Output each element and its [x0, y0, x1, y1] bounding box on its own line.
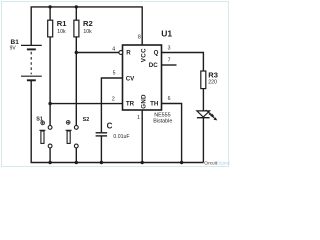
node junction C ground — [100, 161, 103, 164]
svg-text:R2: R2 — [83, 19, 93, 28]
node junction R1 top rail — [48, 5, 51, 8]
LED D1 — [197, 110, 217, 163]
switch S2 — [66, 117, 90, 162]
svg-text:5: 5 — [113, 71, 116, 77]
wire battery+ to top rail and VCC drop — [31, 7, 142, 45]
svg-text:R3: R3 — [208, 70, 218, 79]
svg-text:9V: 9V — [10, 45, 17, 51]
svg-text:3: 3 — [168, 45, 171, 51]
wire TH to ground rail — [162, 104, 182, 163]
svg-text:10k: 10k — [83, 29, 92, 35]
svg-text:Bistable: Bistable — [153, 118, 172, 124]
svg-text:VCC: VCC — [140, 48, 147, 62]
resistor R3 220 — [201, 70, 218, 88]
wire CV pin to capacitor — [101, 78, 122, 132]
node junction S2 ground — [75, 161, 78, 164]
op-amp U1 NE555 body — [119, 28, 173, 124]
svg-text:220: 220 — [208, 80, 217, 86]
svg-text:R: R — [126, 50, 131, 57]
svg-text:GND: GND — [140, 94, 147, 109]
node junction GND pin ground — [141, 161, 144, 164]
wire Q output to R3 — [162, 53, 204, 72]
svg-text:6: 6 — [168, 96, 171, 102]
wire R2 to R pin — [76, 52, 119, 54]
node junction R2 / R-pin — [75, 51, 78, 54]
battery B1 9V — [10, 39, 42, 80]
svg-text:TH: TH — [150, 101, 159, 108]
svg-text:Q: Q — [154, 50, 159, 57]
svg-text:0.01uF: 0.01uF — [113, 134, 129, 140]
node junction S1 ground — [48, 161, 51, 164]
wire ground rail (battery- to LED bottom) — [31, 80, 203, 162]
svg-text:DC: DC — [149, 62, 158, 69]
svg-text:10k: 10k — [57, 29, 66, 35]
svg-text:2: 2 — [112, 96, 115, 102]
svg-text:4: 4 — [112, 46, 115, 52]
wire R3 to LED — [202, 89, 204, 111]
wire DC stub — [162, 64, 177, 66]
capacitor C 0.01uF — [96, 122, 130, 163]
resistor R1 10k — [48, 7, 68, 126]
node junction R2 top rail — [75, 5, 78, 8]
svg-text:1: 1 — [137, 115, 140, 121]
svg-text:7: 7 — [168, 57, 171, 63]
switch S1 — [36, 117, 52, 163]
svg-text:U1: U1 — [161, 28, 172, 38]
svg-text:R1: R1 — [57, 19, 67, 28]
svg-text:S2: S2 — [83, 117, 90, 123]
wire TR pin to R1/S1 junction — [50, 103, 122, 105]
resistor R2 10k — [74, 7, 93, 126]
svg-text:8: 8 — [138, 34, 141, 40]
svg-text:CircuitDigest: CircuitDigest — [204, 161, 230, 166]
svg-text:C: C — [107, 122, 113, 131]
svg-text:CV: CV — [126, 75, 135, 82]
node junction TH ground — [180, 161, 183, 164]
node junction R1 / TR — [48, 102, 51, 105]
svg-text:TR: TR — [126, 100, 135, 107]
wire GND pin to ground rail — [141, 110, 143, 163]
